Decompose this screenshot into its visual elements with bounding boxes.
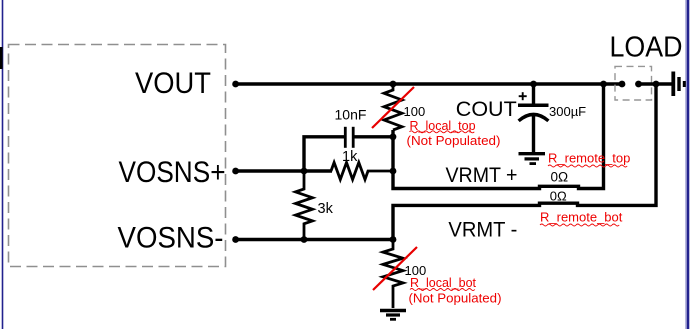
capacitor COUT 300uF (polarized) [532,84,535,104]
junction cap level [390,133,397,140]
svg-text:0Ω: 0Ω [551,170,569,185]
right page border (blue) [687,0,690,329]
pin dot VOSNS+ [232,168,239,175]
svg-text:10nF: 10nF [335,107,367,123]
svg-text:3k: 3k [318,201,334,217]
junction VOSNS+ / 3k / cap branch [301,168,308,175]
wire load right pin to earth [639,82,672,85]
load connector dashed box [615,66,652,100]
capacitor C 10nF plates [344,127,347,148]
ground symbol below COUT [519,154,546,164]
svg-text:300µF: 300µF [549,104,586,119]
left page border (blue) [2,0,4,329]
svg-text:R_remote_top: R_remote_top [548,150,630,165]
not-populated slash over R_local_top [372,87,414,128]
plus sign of COUT [519,92,527,100]
svg-text:VRMT +: VRMT + [446,163,518,187]
regulator dashed outline box [9,45,226,267]
svg-text:(Not Populated): (Not Populated) [407,133,501,148]
junction VOUT / R_local_top [390,81,397,88]
resistor R_local_bot 100 (vertical) [383,240,403,309]
resistor R 1k (horizontal) [331,163,393,180]
junction 1k level [390,168,397,175]
spellcheck squiggle under R_remote_top [548,165,627,167]
resistor R_local_top 100 (vertical) [384,84,402,130]
wire VOSNS- net [236,238,393,241]
load right pin dot [635,81,642,88]
svg-text:VRMT -: VRMT - [448,218,517,242]
svg-text:VOSNS-: VOSNS- [118,222,224,255]
svg-text:0Ω: 0Ω [550,189,567,204]
junction load return / VRMT- tap [653,81,660,88]
spellcheck squiggle under R_remote_bot [540,224,619,226]
svg-text:(Not Populated): (Not Populated) [409,290,502,305]
earth ground symbol (right, sideways) [673,72,684,97]
svg-text:LOAD: LOAD [610,31,683,63]
resistor R 3k (vertical) [296,171,313,240]
ground symbol below R_local_bot [380,311,406,320]
wire VOSNS+ net [236,169,332,172]
junction VOUT / COUT [530,81,537,88]
junction VOSNS- / 3k bottom [301,236,308,243]
left border black block [0,47,3,69]
not-populated slash over R_local_bot [373,247,417,290]
svg-text:100: 100 [404,104,426,119]
wire VRMT- net with 0-ohm bump (R_remote_bot) [393,84,656,240]
svg-text:VOUT: VOUT [135,67,211,100]
pin dot VOUT [232,81,239,88]
wire node R_local_top bottom / C right / 1k right, down and right as VRMT+ with 0-ohm bump [393,84,604,189]
pin dot VOSNS- [232,236,239,243]
svg-text:R_local_bot: R_local_bot [410,276,477,290]
junction VOSNS- / R_local_bot / VRMT- riser [390,236,397,243]
wire VOUT net (pin to load left pin) [236,82,622,85]
spellcheck squiggle under R_local_bot [410,289,475,291]
spellcheck squiggle under R_local_top [410,131,475,133]
svg-text:1k: 1k [342,149,358,165]
junction VOUT / VRMT+ tap [600,81,607,88]
svg-text:R_remote_bot: R_remote_bot [540,209,623,224]
svg-text:COUT: COUT [456,97,517,121]
load left pin dot [619,81,626,88]
wire capacitor branch [304,137,393,171]
svg-text:VOSNS+: VOSNS+ [119,156,226,189]
